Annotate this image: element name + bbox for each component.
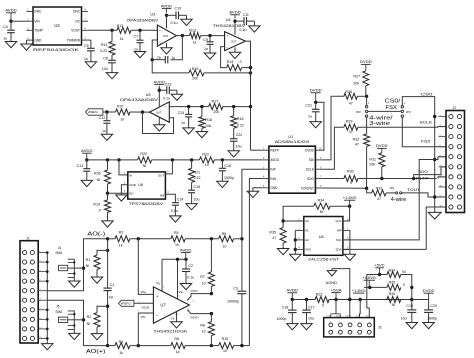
wire U4 output xyxy=(245,41,250,150)
capacitor C22 xyxy=(230,138,238,140)
capacitor C23 xyxy=(159,89,167,91)
capacitor C12 xyxy=(106,112,108,121)
svg-text:0: 0 xyxy=(99,209,101,213)
resistor R6 xyxy=(171,343,186,349)
ground xyxy=(85,62,96,68)
svg-text:A2: A2 xyxy=(305,238,309,242)
wire U3 V+ to AVDD xyxy=(166,15,168,28)
svg-text:AO(-): AO(-) xyxy=(87,231,105,237)
resistor R9 xyxy=(219,236,234,242)
svg-text:R32: R32 xyxy=(353,138,360,142)
svg-text:AO(+): AO(+) xyxy=(86,349,106,355)
svg-text:R13: R13 xyxy=(189,28,196,32)
svg-text:VIN-: VIN- xyxy=(141,315,146,319)
svg-text:VIN: VIN xyxy=(34,20,40,24)
svg-text:C20: C20 xyxy=(430,304,437,308)
svg-text:U2: U2 xyxy=(54,23,60,28)
wire VIN- (pin 1) xyxy=(138,313,153,346)
wire FSX net xyxy=(402,117,446,147)
svg-text:1k: 1k xyxy=(120,117,124,121)
jumper JP3 xyxy=(386,192,396,194)
svg-text:47: 47 xyxy=(355,142,359,146)
svg-text:JP3: JP3 xyxy=(389,186,394,190)
svg-text:0.1u: 0.1u xyxy=(163,97,170,101)
ground xyxy=(102,221,113,227)
svg-text:A0: A0 xyxy=(305,219,309,223)
svg-text:TRIM/NR: TRIM/NR xyxy=(67,38,81,42)
op-amp U3 OPA333AIDBV xyxy=(157,25,176,46)
svg-text:20k: 20k xyxy=(213,110,219,114)
svg-text:NI: NI xyxy=(97,178,101,182)
wire SDO net xyxy=(322,178,344,180)
svg-text:20k: 20k xyxy=(369,162,375,166)
wire EN xyxy=(108,192,128,194)
svg-text:VOUT-: VOUT- xyxy=(190,289,198,293)
svg-text:U8: U8 xyxy=(319,235,324,239)
wire AO(+) from J1 xyxy=(47,300,107,345)
svg-text:NI: NI xyxy=(392,303,396,307)
svg-text:C17: C17 xyxy=(308,305,315,309)
svg-text:OPA333AIDBV: OPA333AIDBV xyxy=(127,18,159,22)
capacitor C7 xyxy=(138,29,141,32)
svg-text:0.1u: 0.1u xyxy=(171,209,178,213)
svg-text:OPA333AIDBV: OPA333AIDBV xyxy=(120,98,159,102)
svg-text:0.22: 0.22 xyxy=(237,123,244,127)
svg-text:CS0/: CS0/ xyxy=(385,98,401,104)
svg-text:R20: R20 xyxy=(140,152,147,156)
svg-text:PD: PD xyxy=(156,281,160,285)
svg-text:R36: R36 xyxy=(94,172,101,176)
svg-text:R18: R18 xyxy=(205,118,212,122)
resistor R7 xyxy=(210,292,213,295)
svg-text:R1: R1 xyxy=(86,258,91,262)
ground xyxy=(101,134,112,140)
svg-text:0.1u: 0.1u xyxy=(171,21,178,25)
resistor R3 xyxy=(115,236,130,242)
svg-text:NI: NI xyxy=(143,164,147,168)
resistor R33 xyxy=(372,190,387,196)
wire to J3 supplies xyxy=(329,299,412,301)
ground xyxy=(217,181,228,187)
svg-text:C11: C11 xyxy=(243,13,249,17)
ground xyxy=(228,151,239,157)
wire VOCM xyxy=(134,302,154,304)
resistor R28 xyxy=(344,93,358,99)
svg-text:C7: C7 xyxy=(134,34,139,38)
svg-text:VS-: VS- xyxy=(171,317,175,321)
wire U4 V+ to AVDD xyxy=(234,21,236,35)
node AGND tie xyxy=(332,269,350,318)
svg-text:VCC: VCC xyxy=(335,219,342,223)
svg-text:R10: R10 xyxy=(222,337,229,341)
ground (U5 V-) xyxy=(158,117,160,125)
svg-text:SDI: SDI xyxy=(309,158,314,162)
svg-text:+: + xyxy=(164,104,166,108)
resistor R15 xyxy=(189,70,204,76)
svg-text:WP: WP xyxy=(337,229,342,233)
wire J3 col1/col2 riser xyxy=(335,300,337,314)
capacitor C15 xyxy=(188,189,195,191)
svg-text:C5: C5 xyxy=(84,44,89,48)
wire U6 OUT xyxy=(165,160,172,174)
resistor R35 xyxy=(282,221,284,228)
ground (U1 GND) xyxy=(253,188,262,192)
svg-text:C19: C19 xyxy=(406,304,413,308)
svg-text:CONVST: CONVST xyxy=(301,186,314,190)
svg-text:TEMP: TEMP xyxy=(34,29,43,33)
svg-text:1u: 1u xyxy=(172,56,176,60)
svg-text:SCL: SCL xyxy=(336,238,342,242)
svg-text:AVDD: AVDD xyxy=(270,158,279,162)
jumper JP2 xyxy=(366,96,368,105)
svg-text:0: 0 xyxy=(350,181,352,185)
connector J3 xyxy=(324,318,375,337)
svg-text:R35: R35 xyxy=(269,230,276,234)
wire R37 to U5 output xyxy=(130,111,150,113)
svg-text:OUT: OUT xyxy=(231,40,237,43)
svg-text:AGND: AGND xyxy=(336,314,342,317)
svg-text:VOUT+: VOUT+ xyxy=(190,315,199,319)
svg-text:1k: 1k xyxy=(119,244,123,248)
svg-text:INP: INP xyxy=(270,168,275,172)
svg-text:C3: C3 xyxy=(233,286,238,290)
svg-text:C1: C1 xyxy=(110,283,115,287)
svg-text:0.1u: 0.1u xyxy=(187,275,194,279)
svg-text:AVDD: AVDD xyxy=(161,4,173,8)
svg-text:47: 47 xyxy=(349,130,353,134)
ground xyxy=(91,334,102,340)
svg-text:INN: INN xyxy=(270,177,276,181)
svg-text:1k: 1k xyxy=(175,243,179,247)
ground xyxy=(171,94,182,100)
ground xyxy=(170,216,181,222)
svg-text:C23: C23 xyxy=(165,83,172,87)
ground xyxy=(106,73,117,79)
ground (U6 GND) xyxy=(121,185,127,195)
wire R4-R6 xyxy=(130,345,171,347)
resistor R19 xyxy=(107,193,109,200)
resistor R24 xyxy=(387,272,401,278)
ground (U4 V-) xyxy=(234,47,236,52)
svg-text:R27: R27 xyxy=(353,75,360,79)
resistor R8 xyxy=(210,312,213,315)
capacitor C6 xyxy=(108,59,116,61)
svg-text:AVDD: AVDD xyxy=(180,248,192,252)
wire JP2-JP1 common xyxy=(368,110,401,112)
svg-text:10: 10 xyxy=(202,282,206,286)
wire VOUT+ xyxy=(187,310,211,314)
svg-text:U6: U6 xyxy=(138,182,144,187)
wire IN xyxy=(119,160,128,175)
svg-text:DVDD: DVDD xyxy=(360,60,373,64)
svg-text:10u: 10u xyxy=(308,316,314,320)
ground (U3 V-) xyxy=(166,43,168,48)
node CS0 wire xyxy=(402,97,434,117)
ground xyxy=(196,132,207,138)
svg-text:R12: R12 xyxy=(117,24,124,28)
svg-text:0.22: 0.22 xyxy=(194,176,201,180)
svg-text:A1: A1 xyxy=(305,229,309,233)
resistor R11 xyxy=(111,30,113,41)
svg-text:CS0: CS0 xyxy=(421,93,433,97)
ground (U2 GND pin) xyxy=(26,40,28,44)
svg-text:1u: 1u xyxy=(308,114,312,118)
ground (J4) xyxy=(73,278,75,281)
wire DVDD pin riser xyxy=(316,102,324,150)
svg-text:R4: R4 xyxy=(119,340,124,344)
svg-text:10u: 10u xyxy=(102,67,108,71)
svg-text:DVDD: DVDD xyxy=(310,89,323,93)
svg-text:DNC: DNC xyxy=(34,10,42,14)
svg-text:R5: R5 xyxy=(174,231,179,235)
svg-text:SMA: SMA xyxy=(55,251,63,255)
svg-text:GND: GND xyxy=(270,186,278,190)
svg-text:NC: NC xyxy=(75,20,80,24)
resistor R21 xyxy=(191,160,193,168)
wire J3 col4 riser xyxy=(359,300,362,318)
ground (J2) xyxy=(428,212,441,219)
svg-text:+: + xyxy=(226,34,228,38)
svg-text:1u: 1u xyxy=(84,57,88,61)
svg-text:C12: C12 xyxy=(99,116,106,120)
ground xyxy=(181,19,192,25)
svg-text:OUT: OUT xyxy=(158,173,165,177)
resistor R1 xyxy=(106,249,109,252)
svg-text:TOUT: TOUT xyxy=(407,188,420,192)
svg-text:NI: NI xyxy=(87,322,91,326)
resistor R4 xyxy=(115,343,130,349)
svg-text:REFP: REFP xyxy=(270,149,279,153)
svg-text:R17: R17 xyxy=(212,99,219,103)
wire R5-R9 xyxy=(185,238,218,240)
svg-text:C15: C15 xyxy=(194,185,201,189)
svg-text:R11: R11 xyxy=(101,43,107,47)
svg-text:47: 47 xyxy=(272,236,276,240)
capacitor C9 xyxy=(208,34,211,37)
svg-text:1k: 1k xyxy=(119,351,123,355)
svg-text:+5VD: +5VD xyxy=(365,315,370,317)
svg-text:AVDD: AVDD xyxy=(81,149,93,153)
svg-text:R37: R37 xyxy=(117,105,124,109)
svg-text:R14: R14 xyxy=(227,60,234,64)
wire U3 inverting input loop xyxy=(152,40,189,73)
svg-text:ADS88x1IDGS: ADS88x1IDGS xyxy=(275,139,310,144)
wire R24 line xyxy=(367,275,387,309)
svg-text:R3: R3 xyxy=(119,230,124,234)
capacitor C10 xyxy=(167,14,177,16)
capacitor C14 xyxy=(165,194,175,203)
resistor R2 xyxy=(97,306,108,312)
svg-text:IN: IN xyxy=(129,173,132,177)
svg-text:0.1u: 0.1u xyxy=(239,28,246,32)
svg-text:INT#: INT# xyxy=(416,177,429,181)
ground xyxy=(91,277,102,283)
wire R34 left to A0 xyxy=(283,206,314,221)
capacitor C13 xyxy=(86,160,88,169)
svg-text:+: + xyxy=(159,29,161,33)
wire SDO to J2 xyxy=(358,178,437,180)
resistor R14 feedback xyxy=(221,47,227,68)
connector J1 xyxy=(20,241,38,343)
wire R13 to U4 xyxy=(201,35,225,37)
svg-text:+1.8VD: +1.8VD xyxy=(352,289,366,293)
svg-text:+1.8VD: +1.8VD xyxy=(362,276,376,280)
capacitor C19 xyxy=(411,300,413,310)
capacitor C1 xyxy=(107,239,109,288)
wire R10 to INN xyxy=(234,345,250,347)
svg-text:FSX: FSX xyxy=(386,105,398,111)
ground xyxy=(180,284,191,290)
capacitor C8 feedback xyxy=(170,36,182,60)
svg-text:+5VA: +5VA xyxy=(330,288,342,292)
svg-text:R30: R30 xyxy=(347,170,354,174)
wire AVDD rail xyxy=(87,159,138,161)
svg-text:C9: C9 xyxy=(203,38,208,42)
capacitor C2 xyxy=(185,259,187,269)
wire SCLK to J2 xyxy=(358,126,438,128)
connector J2 xyxy=(446,111,465,213)
resistor R18 xyxy=(201,107,203,117)
svg-text:+1.8VD: +1.8VD xyxy=(343,196,357,200)
ground xyxy=(183,128,194,134)
svg-text:R26: R26 xyxy=(389,292,396,296)
svg-text:R21: R21 xyxy=(194,170,201,174)
resistor R32 xyxy=(366,117,368,134)
resistor R10 xyxy=(219,343,234,349)
svg-text:SCLK: SCLK xyxy=(419,121,433,125)
svg-text:C16: C16 xyxy=(224,164,231,168)
svg-text:4-wire: 4-wire xyxy=(391,197,407,203)
svg-text:R34: R34 xyxy=(318,198,325,202)
svg-text:−: − xyxy=(226,45,228,49)
svg-text:C8: C8 xyxy=(157,56,161,60)
svg-text:1000p: 1000p xyxy=(427,316,437,320)
svg-text:1u: 1u xyxy=(181,121,185,125)
svg-text:VREF/2: VREF/2 xyxy=(121,302,132,306)
wire AO(+) line xyxy=(106,344,109,347)
resistor R27 xyxy=(363,71,369,86)
wire R6-R10 xyxy=(185,345,218,347)
wire CONVST xyxy=(322,187,367,189)
wire INP xyxy=(242,169,262,291)
svg-text:V-: V- xyxy=(160,42,162,45)
svg-text:R8: R8 xyxy=(200,324,205,328)
svg-text:TPS78833DBV: TPS78833DBV xyxy=(129,201,164,206)
svg-text:R28: R28 xyxy=(345,90,352,94)
svg-text:NI: NI xyxy=(86,264,90,268)
wire TOUT xyxy=(402,193,446,197)
svg-text:OUT: OUT xyxy=(156,111,162,114)
svg-text:1k: 1k xyxy=(120,37,124,41)
svg-text:R25: R25 xyxy=(389,280,396,284)
wire U5 V+ to AVDD xyxy=(158,86,160,107)
svg-text:JP1: JP1 xyxy=(406,110,411,114)
svg-text:20k: 20k xyxy=(192,76,198,80)
svg-text:1u: 1u xyxy=(3,37,7,41)
wire R15 to U4 output node xyxy=(204,72,251,74)
svg-text:R9: R9 xyxy=(222,232,227,236)
ground (WP) xyxy=(348,230,351,254)
wire U5 feedback loop xyxy=(143,112,174,133)
resistor R34 xyxy=(314,203,331,209)
svg-text:R7: R7 xyxy=(200,275,205,279)
svg-text:10: 10 xyxy=(205,163,209,167)
wire R12 to U3 xyxy=(131,29,157,31)
wire REFP riser xyxy=(251,149,263,151)
resistor R31 xyxy=(379,153,385,167)
jumper JP1 xyxy=(401,106,403,108)
svg-text:10: 10 xyxy=(202,330,206,334)
svg-text:R24: R24 xyxy=(389,268,396,272)
resistor R30 xyxy=(344,176,358,182)
ground xyxy=(134,52,145,58)
IC U6 TPS78833DBV xyxy=(128,172,166,199)
capacitor C5 xyxy=(88,39,91,41)
resistor R17 xyxy=(209,104,223,110)
svg-text:R15: R15 xyxy=(192,67,199,71)
svg-text:+1.8: +1.8 xyxy=(355,315,359,317)
wire VIN+ (pin 8) xyxy=(138,239,153,295)
svg-text:DGND: DGND xyxy=(346,315,352,317)
wire A1/A2/VSS tie xyxy=(294,230,296,254)
wire U3 output xyxy=(176,35,182,37)
wire SCL net xyxy=(343,160,435,240)
svg-text:R29: R29 xyxy=(346,119,353,123)
op-amp U7 THS4521IDGK xyxy=(153,287,189,323)
wire U2 VOUT xyxy=(88,29,117,31)
ground (J1) xyxy=(46,341,48,343)
ground xyxy=(277,249,288,255)
wire R22 to U1 AVDD xyxy=(214,159,262,161)
capacitor C3 xyxy=(237,290,246,292)
wire VS+ pin xyxy=(177,259,179,299)
svg-text:R33: R33 xyxy=(376,187,383,191)
resistor R22 xyxy=(199,157,214,163)
svg-text:SDO: SDO xyxy=(307,177,314,181)
ground xyxy=(423,323,434,329)
svg-text:1000p: 1000p xyxy=(224,176,234,180)
svg-text:C10: C10 xyxy=(175,6,182,10)
wire AVDD rail U7 xyxy=(162,258,186,260)
svg-text:47: 47 xyxy=(349,102,353,106)
wire PD pin to AVDD xyxy=(161,259,163,291)
svg-text:C22: C22 xyxy=(236,133,243,137)
svg-text:J3: J3 xyxy=(378,325,382,329)
op-amp U5 OPA333AIDBV (buffer) xyxy=(150,102,170,122)
resistor R16 xyxy=(233,107,235,116)
svg-text:DVDD: DVDD xyxy=(423,289,436,293)
svg-text:SMA: SMA xyxy=(55,310,63,314)
wire SCLK net xyxy=(322,127,344,169)
svg-text:U7: U7 xyxy=(160,303,166,308)
ground xyxy=(290,254,301,260)
svg-text:R22: R22 xyxy=(202,152,209,156)
svg-text:U5: U5 xyxy=(146,93,151,97)
svg-text:OUT: OUT xyxy=(163,34,169,38)
svg-text:10u: 10u xyxy=(236,144,242,148)
wire J1 ground bus xyxy=(46,253,48,342)
svg-text:20k: 20k xyxy=(205,124,211,128)
resistor R13 xyxy=(182,35,189,37)
svg-text:C18: C18 xyxy=(282,305,289,309)
IC U8 24LC256 xyxy=(304,217,343,256)
svg-text:10u: 10u xyxy=(401,317,407,321)
capacitor C11 xyxy=(235,20,244,22)
wire INN xyxy=(249,179,262,346)
wire R3-R5 xyxy=(130,238,171,240)
op-amp U4 THS4281DBV xyxy=(225,32,246,51)
svg-text:−: − xyxy=(164,117,166,121)
